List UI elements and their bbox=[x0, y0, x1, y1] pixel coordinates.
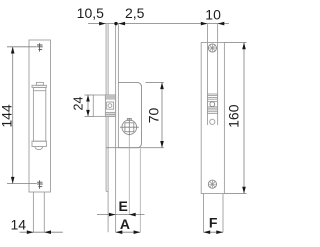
svg-text:160: 160 bbox=[226, 104, 242, 128]
svg-text:A: A bbox=[120, 216, 130, 232]
svg-text:24: 24 bbox=[72, 97, 86, 111]
svg-text:14: 14 bbox=[11, 216, 27, 232]
svg-text:E: E bbox=[119, 198, 128, 214]
svg-text:10: 10 bbox=[205, 6, 221, 22]
svg-text:2,5: 2,5 bbox=[125, 5, 145, 21]
svg-text:F: F bbox=[209, 215, 218, 231]
svg-text:144: 144 bbox=[0, 104, 14, 128]
svg-text:70: 70 bbox=[145, 108, 161, 124]
svg-text:10,5: 10,5 bbox=[77, 5, 104, 21]
